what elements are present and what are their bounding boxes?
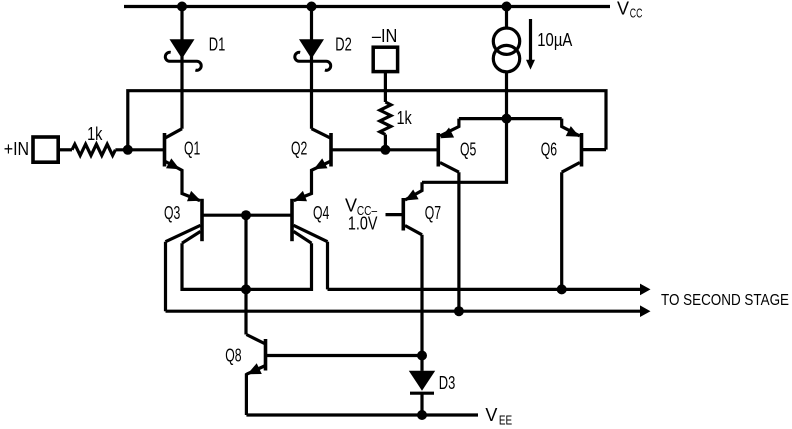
wire node to Q5 base bbox=[385, 148, 437, 151]
resistor 1k (at -IN) bbox=[380, 102, 391, 135]
node Q7 collector / Q8 base / D3 bbox=[417, 351, 427, 361]
wire bootstrap +IN node to Q6 base bbox=[128, 91, 606, 150]
arrow second stage upper bbox=[640, 284, 651, 296]
svg-text:TO SECOND STAGE: TO SECOND STAGE bbox=[661, 292, 789, 309]
node +IN junction bbox=[123, 145, 133, 155]
svg-text:Q1: Q1 bbox=[184, 139, 200, 159]
transistor Q8 (NPN) bbox=[246, 335, 265, 416]
arrow second stage lower bbox=[640, 305, 651, 317]
transistor Q3 (PNP dual collector) bbox=[166, 191, 203, 243]
transistor Q6 (PNP) bbox=[562, 119, 582, 173]
svg-text:Q5: Q5 bbox=[460, 140, 476, 160]
node VCC junction at D1 bbox=[177, 2, 187, 12]
wire Q7 collector down to D3 bbox=[420, 235, 423, 371]
transistor Q7 (PNP) bbox=[403, 182, 422, 235]
wire Q8 base to D3 node bbox=[267, 354, 422, 357]
svg-text:Q4: Q4 bbox=[313, 203, 329, 223]
terminal +IN square bbox=[33, 137, 58, 162]
svg-text:EE: EE bbox=[499, 412, 513, 427]
wire resistor to Q1 base bbox=[115, 148, 163, 151]
wire Q7 base stub bbox=[386, 213, 403, 216]
wire second stage lower bbox=[166, 310, 643, 313]
node Q2 base / -IN resistor / Q5 base bbox=[380, 145, 390, 155]
wire resistor to Q2 base node bbox=[384, 135, 387, 150]
current source 10uA bbox=[493, 7, 535, 119]
wire Q5/Q6 emitter rail bbox=[459, 117, 562, 120]
wire +IN to resistor bbox=[58, 148, 72, 151]
node upper line / Q6 collector bbox=[557, 284, 567, 294]
wire Q3 outer collector down bbox=[164, 242, 167, 312]
wire Q2 base to node bbox=[333, 148, 386, 151]
transistor Q5 (PNP) bbox=[438, 119, 459, 173]
wire VEE bottom rail bbox=[246, 413, 478, 416]
diode D3 bbox=[409, 371, 435, 415]
wire Q4 outer collector down bbox=[326, 242, 329, 290]
transistor Q4 (PNP dual collector) bbox=[292, 191, 328, 243]
wire second stage upper bbox=[328, 288, 643, 291]
svg-text:Q2: Q2 bbox=[291, 139, 307, 159]
wire D1 cathode to Q1 collector bbox=[180, 61, 183, 129]
svg-text:1k: 1k bbox=[87, 124, 103, 144]
svg-text:Q8: Q8 bbox=[225, 345, 241, 365]
svg-text:Q6: Q6 bbox=[541, 140, 557, 160]
svg-text:V: V bbox=[617, 0, 629, 18]
diode D2 (Schottky) bbox=[295, 7, 331, 71]
svg-text:+IN: +IN bbox=[4, 139, 29, 159]
svg-text:V: V bbox=[345, 196, 357, 216]
svg-text:1.0V: 1.0V bbox=[348, 214, 378, 234]
wire mirror inner-collector bus bbox=[182, 243, 312, 289]
wire top VCC rail bbox=[124, 5, 610, 8]
svg-text:V: V bbox=[485, 405, 497, 425]
svg-text:D1: D1 bbox=[209, 34, 226, 54]
node lower line / Q5 collector bbox=[454, 306, 464, 316]
svg-text:D3: D3 bbox=[439, 373, 456, 393]
svg-text:D2: D2 bbox=[335, 34, 352, 54]
wire current source to Q7 emitter bbox=[422, 119, 507, 183]
svg-text:10µA: 10µA bbox=[537, 30, 572, 50]
wire D2 cathode to Q2 collector bbox=[310, 61, 313, 129]
svg-text:CC: CC bbox=[630, 6, 643, 21]
diode D1 (Schottky) bbox=[165, 7, 201, 71]
transistor Q1 (NPN) bbox=[165, 129, 201, 201]
wire Q6 collector down bbox=[560, 172, 563, 289]
node emitter rail / current source bbox=[502, 114, 512, 124]
svg-text:–IN: –IN bbox=[372, 26, 398, 46]
wire Q5 collector down bbox=[457, 172, 460, 311]
svg-text:Q3: Q3 bbox=[164, 203, 180, 223]
node mirror bus junction bbox=[241, 284, 251, 294]
wire -IN to resistor bbox=[384, 72, 387, 102]
terminal -IN square bbox=[373, 47, 397, 71]
resistor 1k (at +IN) bbox=[72, 144, 115, 155]
wire Q6 base to bootstrap bbox=[583, 148, 606, 151]
wire base node down to Q8 collector bbox=[244, 215, 247, 334]
wire Q3 base rail bbox=[204, 214, 291, 217]
node VCC junction at D2 bbox=[307, 2, 317, 12]
node Q3/Q4 base junction bbox=[241, 210, 251, 220]
svg-text:Q7: Q7 bbox=[425, 203, 441, 223]
node VCC junction at current source bbox=[502, 2, 512, 12]
svg-text:1k: 1k bbox=[397, 108, 413, 128]
node VEE / D3 cathode bbox=[417, 410, 427, 420]
transistor Q2 (NPN) bbox=[294, 129, 331, 201]
